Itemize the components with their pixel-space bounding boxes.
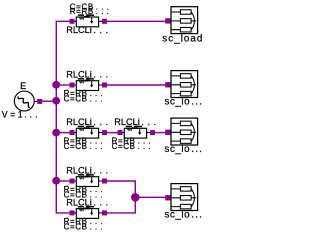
line RLCLine4b body (76, 209, 98, 219)
line RLCLine4a (70, 174, 108, 186)
line RLCLine4a pin stubs (75, 180, 103, 182)
line RLCLine3b shunt arrow (139, 129, 141, 133)
load sc_load3 resistors (180, 121, 191, 126)
load sc_load1 (165, 7, 197, 34)
svg-text:RLCLi...: RLCLi... (66, 69, 111, 79)
svg-text:E: E (20, 81, 26, 91)
line RLCLine3a pin stubs (75, 132, 103, 134)
node line4 join (131, 193, 140, 202)
load sc_load3 body (171, 118, 198, 145)
line RLCLine2 (70, 78, 108, 90)
load sc_load2 phase stubs (172, 76, 181, 94)
source E sine (18, 96, 30, 107)
line RLCLine2 shunt arrow (91, 81, 93, 85)
load sc_load3 arc (191, 123, 194, 141)
svg-text:sc_lo...: sc_lo... (165, 209, 204, 220)
line RLCLine3a left pin (70, 130, 75, 135)
line RLCLine1 body (76, 17, 98, 27)
line RLCLine1 left pin (70, 19, 75, 24)
line RLCLine4b pin stubs (75, 212, 103, 214)
node bus-line3 (52, 129, 60, 137)
line RLCLine2 left pin (70, 83, 75, 88)
line RLCLine3b interior detail (127, 129, 130, 131)
line RLCLine2 winding bars (78, 78, 84, 80)
load sc_load2 (165, 71, 197, 98)
load sc_load1 pin (165, 18, 170, 23)
svg-text:C=CB...: C=CB... (64, 142, 106, 151)
line RLCLine1 winding bars (78, 14, 84, 16)
line RLCLine4a winding bars (78, 174, 84, 176)
line RLCLine1 shunt arrow (91, 18, 93, 22)
wire: line1 to load1 (107, 20, 167, 22)
load sc_load2 body (171, 71, 198, 98)
line RLCLine3b right pin (150, 130, 155, 135)
line RLCLine4a interior detail (79, 177, 82, 179)
line RLCLine3b body (124, 128, 146, 138)
wire: junction to load4 (135, 196, 166, 198)
line RLCLine2 pin stubs (75, 84, 103, 86)
svg-text:RLCLi...: RLCLi... (66, 117, 111, 127)
load sc_load1 body (171, 7, 198, 34)
svg-text:RLCLi...: RLCLi... (114, 117, 159, 127)
line RLCLine4b shunt arrow (91, 209, 93, 213)
load sc_load3 phase stubs (172, 123, 181, 141)
line RLCLine4b winding bars (78, 206, 84, 208)
load sc_load4 middle stub (191, 197, 196, 199)
line RLCLine3a (70, 126, 108, 138)
node bus-line2 (52, 81, 60, 89)
load sc_load3 middle stub (191, 131, 196, 133)
svg-text:R=RB...: R=RB... (70, 7, 112, 16)
line RLCLine4a shunt arrow (91, 177, 93, 181)
load sc_load1 resistors (180, 10, 191, 15)
load sc_load4 pin (165, 195, 170, 200)
line RLCLine3b winding bars (126, 126, 132, 128)
load sc_load2 arc (191, 76, 194, 94)
source E stub (34, 100, 37, 102)
wire: bus to line2 (56, 84, 70, 86)
load sc_load4 body (171, 184, 198, 211)
source E pin (37, 99, 42, 104)
svg-text:C=CB...: C=CB... (112, 142, 154, 151)
load sc_load2 pin (165, 82, 170, 87)
line RLCLine3a body (76, 128, 98, 138)
line RLCLine4a left pin (70, 179, 75, 184)
line RLCLine1 (70, 14, 108, 26)
line RLCLine4b left pin (70, 210, 75, 215)
load sc_load3 pin (165, 130, 170, 135)
line RLCLine3b left pin (118, 130, 123, 135)
svg-text:RLCLi...: RLCLi... (66, 197, 111, 207)
svg-text:sc_lo...: sc_lo... (165, 144, 204, 155)
svg-text:sc_load: sc_load (162, 34, 203, 45)
line RLCLine3b (118, 126, 156, 138)
load sc_load1 arc (191, 12, 194, 30)
wire: bus vertical with row1 and row4-bottom branches (56, 21, 72, 213)
load sc_load2 resistors (180, 74, 191, 79)
load sc_load1 middle stub (191, 20, 196, 22)
load sc_load4 phase stubs (172, 189, 181, 207)
svg-text:C=CB...: C=CB... (64, 222, 106, 231)
load sc_load4 arc (191, 189, 194, 207)
line RLCLine4a right pin (102, 179, 107, 184)
line RLCLine2 interior detail (79, 81, 82, 83)
load sc_load4 (165, 184, 197, 211)
load sc_load3 (165, 118, 197, 145)
line RLCLine1 pin stubs (75, 20, 103, 22)
line RLCLine4b right pin (102, 210, 107, 215)
line RLCLine4a body (76, 177, 98, 187)
node bus-line4 (52, 177, 60, 185)
line RLCLine1 right pin (102, 19, 107, 24)
node bus-source (52, 97, 60, 105)
load sc_load1 phase stubs (172, 12, 181, 30)
wire: source E to bus (42, 100, 57, 102)
line RLCLine3a shunt arrow (91, 129, 93, 133)
load sc_load2 middle stub (191, 84, 196, 86)
svg-text:RLCLi...: RLCLi... (66, 165, 111, 175)
load sc_load4 resistors (180, 187, 191, 192)
line RLCLine4b interior detail (79, 209, 82, 211)
line RLCLine1 interior detail (79, 17, 82, 19)
wire: line3b to load3 (155, 132, 167, 134)
wire: bus to line3a (56, 132, 70, 134)
svg-text:C=CB...: C=CB... (64, 94, 106, 103)
wire: line2 to load2 (107, 84, 167, 86)
wire: bus to line4a (56, 180, 70, 182)
svg-text:V = 1...: V = 1... (2, 109, 41, 119)
line RLCLine3a right pin (102, 130, 107, 135)
wire: line3a to line3b (107, 132, 119, 134)
wire: line4 parallel pair join (107, 181, 136, 213)
line RLCLine3a interior detail (79, 129, 82, 131)
line RLCLine3a winding bars (78, 126, 84, 128)
line RLCLine4b (70, 206, 108, 218)
voltage source E (14, 91, 42, 111)
line RLCLine3b pin stubs (123, 132, 151, 134)
line RLCLine2 right pin (102, 83, 107, 88)
svg-text:sc_lo...: sc_lo... (165, 96, 204, 107)
source E circle (14, 91, 34, 111)
svg-text:RLCLi...: RLCLi... (66, 25, 111, 35)
line RLCLine2 body (76, 81, 98, 91)
